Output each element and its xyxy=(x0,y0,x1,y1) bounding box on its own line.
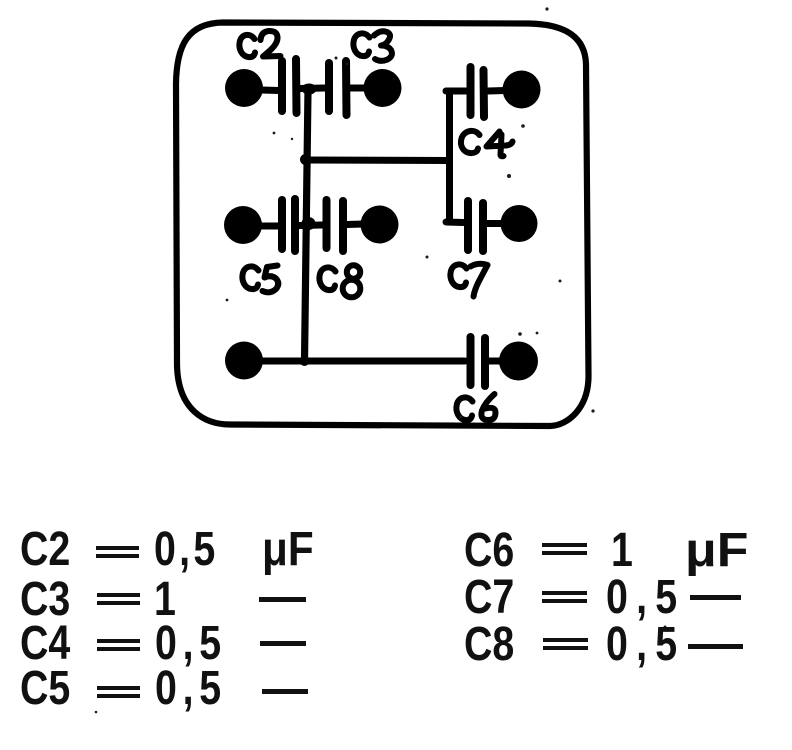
value C4 xyxy=(20,620,70,668)
wire pad1 to C2 xyxy=(261,87,279,95)
junction bus middle xyxy=(302,217,316,230)
capacitor C3 xyxy=(329,61,347,115)
value C5 xyxy=(20,665,70,713)
PCB outline box xyxy=(176,23,589,427)
capacitor C5 xyxy=(282,199,295,251)
pad middle-left xyxy=(224,206,262,244)
value C3 xyxy=(20,576,70,624)
pad bottom-left xyxy=(225,342,263,380)
capacitor C6 xyxy=(471,337,486,386)
wire C5 to bus xyxy=(299,222,322,230)
value C2 xyxy=(20,526,70,574)
wire C7 to pad6 xyxy=(487,220,503,227)
pad top-right xyxy=(503,71,541,109)
label C8 (handwritten) xyxy=(319,267,335,290)
label C7 (handwritten) xyxy=(450,264,466,287)
scan speckles xyxy=(95,7,667,713)
label C2 (handwritten) xyxy=(239,35,255,57)
pad middle-center xyxy=(361,206,399,244)
label C4 (handwritten) xyxy=(461,131,480,153)
junction node A xyxy=(300,154,311,165)
wire C8 to pad5 xyxy=(347,221,363,229)
wire C3 to pad2 xyxy=(350,85,364,92)
capacitor C2 xyxy=(282,59,297,113)
capacitor C7 xyxy=(468,201,483,251)
value C6 xyxy=(464,527,514,575)
pad middle-right xyxy=(501,205,538,242)
wire vertical main bus xyxy=(305,90,309,361)
wire C2 to node xyxy=(300,85,325,93)
capacitor C8 xyxy=(327,200,344,251)
wire branch to C4 xyxy=(446,88,466,95)
wire bottom pad7 to C6 xyxy=(262,358,465,365)
capacitor C4 xyxy=(471,67,485,117)
wire branch vertical xyxy=(446,91,453,222)
label C3 (handwritten) xyxy=(353,33,369,56)
pad top-left xyxy=(225,69,263,107)
label C6 (handwritten) xyxy=(456,397,472,420)
junction node top xyxy=(302,84,317,95)
pad bottom-right xyxy=(499,342,538,381)
wire branch to C7 xyxy=(446,219,463,227)
pad top-middle xyxy=(364,69,402,107)
value C8 xyxy=(464,621,514,669)
wire C4 to pad3 xyxy=(488,87,505,95)
wire C6 to pad8 xyxy=(489,358,501,365)
wire node A to branch xyxy=(306,157,449,165)
label C5 (handwritten) xyxy=(242,266,258,289)
value C7 xyxy=(464,574,514,622)
junction bus bottom xyxy=(300,356,310,366)
wire pad4 to C5 xyxy=(261,223,278,230)
